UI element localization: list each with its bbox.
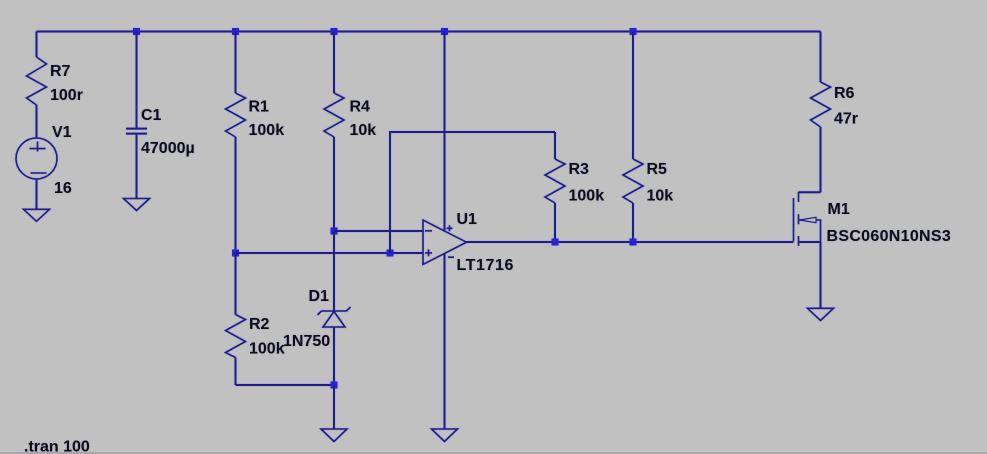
junction bottom node R2/D1/ground	[331, 382, 338, 389]
wire plus input row	[236, 252, 424, 254]
junction plus-input node at R1/R2	[232, 250, 239, 257]
svg-text:V1: V1	[52, 124, 72, 141]
svg-text:1N750: 1N750	[283, 333, 330, 350]
junction top rail at op-amp V+	[441, 28, 448, 35]
wire bottom node to ground	[333, 385, 335, 429]
wire feedback from plus node up and right to R3	[390, 132, 555, 253]
svg-text:R1: R1	[249, 99, 270, 116]
op-amp comparator U1	[423, 211, 514, 274]
ground under M1	[808, 308, 834, 320]
zener diode D1	[283, 288, 351, 350]
ground under V1	[24, 209, 50, 221]
junction top rail at C1	[133, 28, 140, 35]
resistor R7	[27, 32, 83, 139]
svg-text:100k: 100k	[249, 341, 285, 358]
svg-text:R3: R3	[569, 161, 590, 178]
wire top supply rail	[37, 31, 821, 33]
ground under op-amp	[432, 429, 458, 442]
svg-text:R5: R5	[647, 161, 668, 178]
resistor R2	[226, 253, 285, 385]
resistor R3	[545, 132, 604, 242]
svg-text:10k: 10k	[647, 188, 674, 205]
svg-text:100r: 100r	[50, 87, 83, 104]
svg-text:16: 16	[54, 180, 72, 197]
junction top rail at R4	[331, 28, 338, 35]
resistor R5	[623, 32, 673, 243]
svg-text:R2: R2	[249, 316, 270, 333]
svg-text:R7: R7	[50, 63, 71, 80]
resistor R4	[324, 32, 376, 232]
svg-text:BSC060N10NS3: BSC060N10NS3	[827, 228, 952, 245]
junction top rail at R5	[630, 28, 637, 35]
wire D1 anode down to bottom node	[333, 327, 335, 385]
svg-text:U1: U1	[457, 211, 478, 228]
wire V1 to ground	[36, 179, 38, 209]
wire op-amp V- to ground	[444, 254, 446, 430]
svg-text:100k: 100k	[249, 122, 285, 139]
wire comparator output row	[467, 241, 794, 243]
junction minus-input node at R4/D1	[331, 228, 338, 235]
wire R2 bottom to D1 column	[236, 384, 335, 386]
wire op-amp V+ from rail	[444, 32, 446, 232]
svg-text:M1: M1	[828, 201, 850, 218]
svg-text:10k: 10k	[350, 122, 377, 139]
resistor R1	[226, 32, 285, 254]
nmos transistor M1	[794, 192, 952, 246]
bottom edge line	[0, 452, 987, 454]
junction top rail at R1	[232, 28, 239, 35]
svg-text:47000µ: 47000µ	[141, 140, 195, 157]
junction plus input row at feedback	[387, 250, 394, 257]
svg-text:R4: R4	[350, 99, 371, 116]
svg-text:LT1716: LT1716	[457, 257, 515, 274]
wire M1 source to ground	[820, 242, 822, 308]
junction output row at R3	[552, 239, 559, 246]
svg-text:D1: D1	[309, 288, 330, 305]
svg-text:C1: C1	[141, 107, 162, 124]
svg-text:100k: 100k	[569, 188, 605, 205]
junction output row at R5	[630, 239, 637, 246]
ground under D1 column	[321, 429, 347, 442]
ground under C1	[124, 199, 150, 211]
wire minus input row	[334, 230, 423, 232]
voltage source V1	[16, 124, 72, 197]
wire minus-input node down to D1	[333, 231, 335, 311]
capacitor C1	[126, 32, 195, 199]
resistor R6	[811, 32, 859, 193]
svg-text:R6: R6	[834, 85, 855, 102]
svg-text:47r: 47r	[834, 111, 858, 128]
